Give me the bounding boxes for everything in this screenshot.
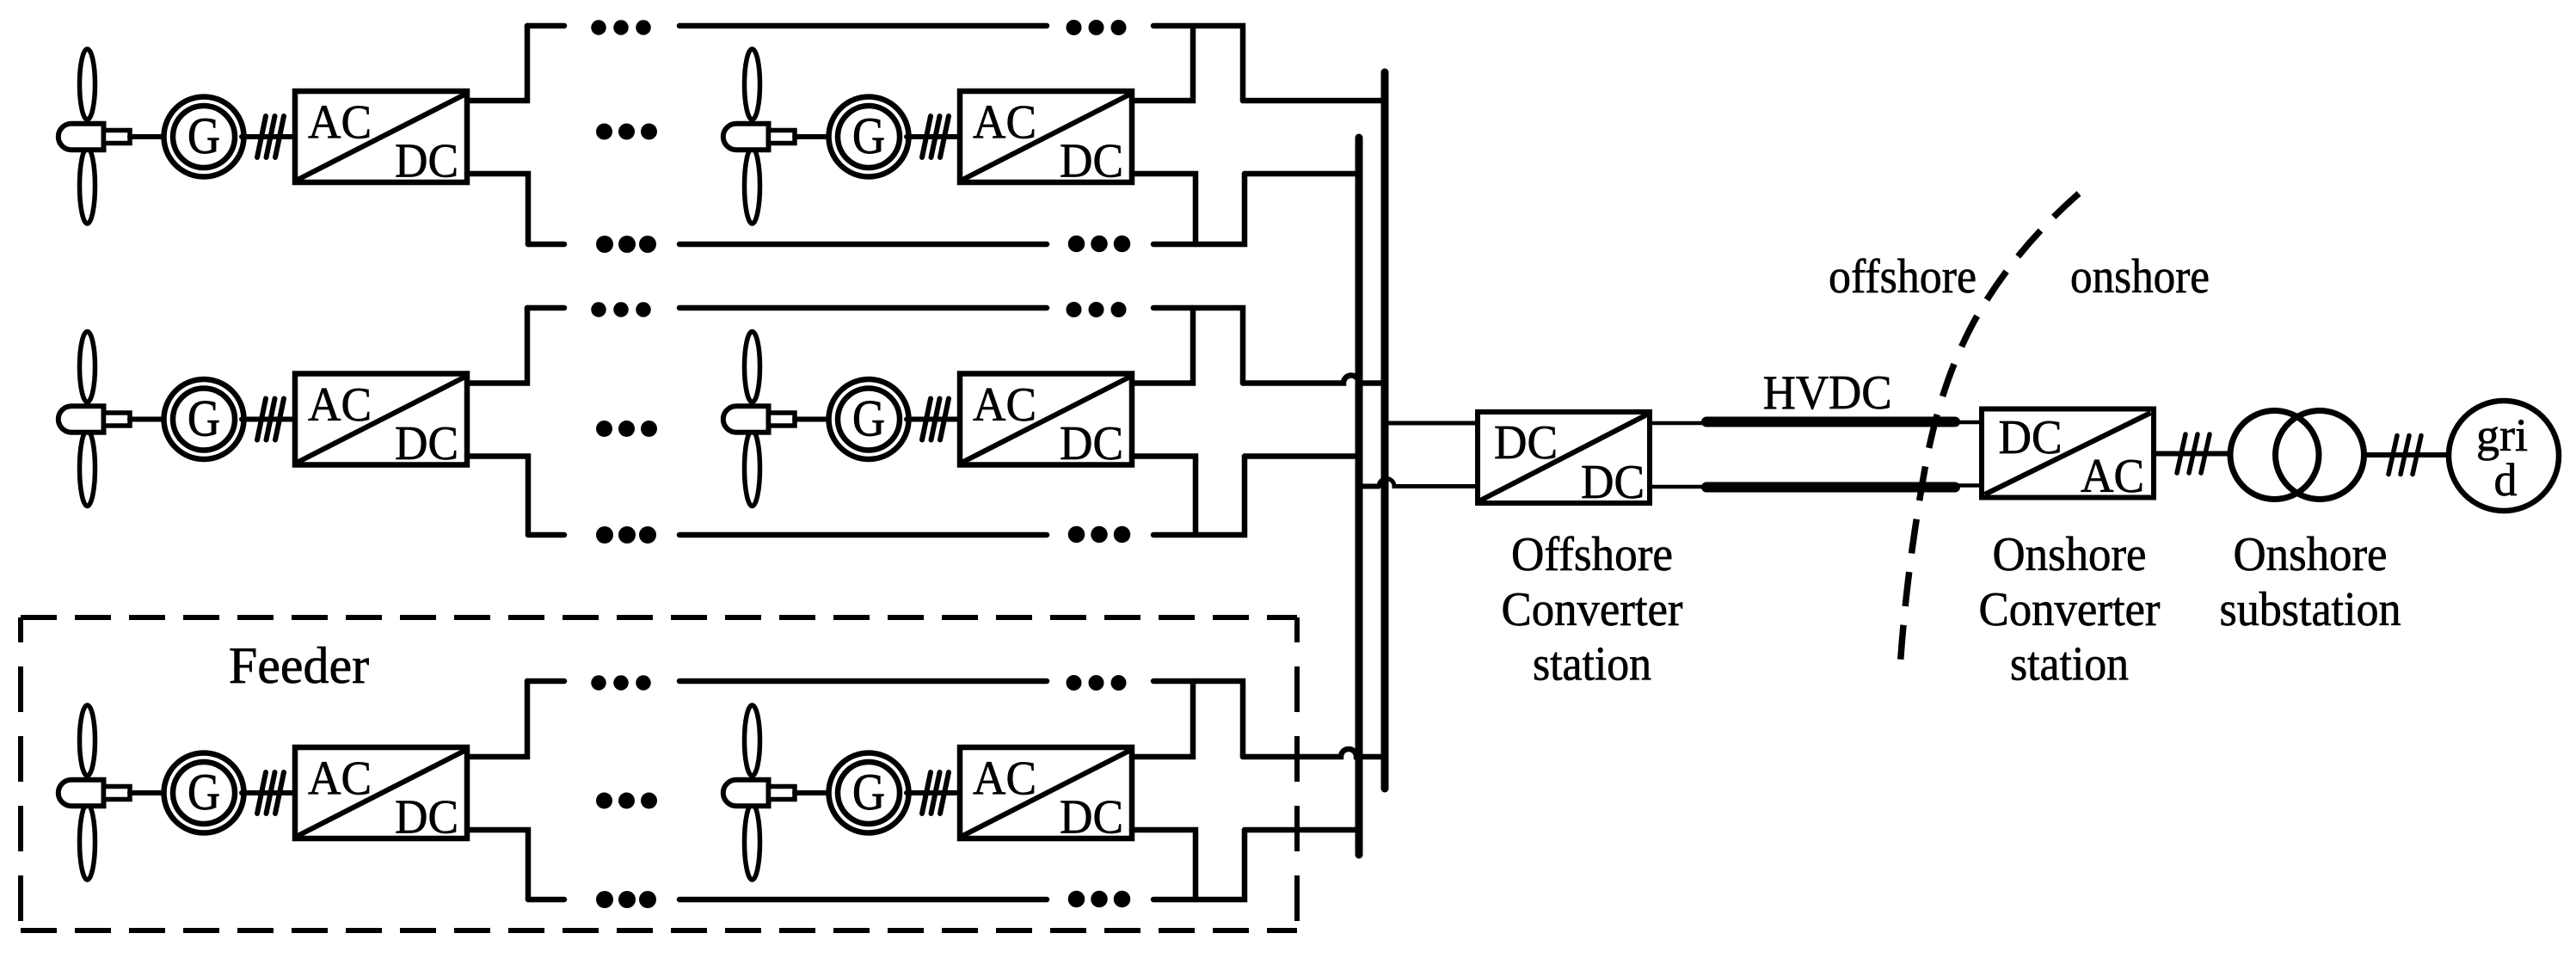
svg-text:DC: DC <box>1581 456 1645 509</box>
svg-text:d: d <box>2494 454 2518 506</box>
svg-text:Converter: Converter <box>1502 583 1683 636</box>
svg-text:station: station <box>1533 638 1651 691</box>
svg-text:DC: DC <box>1494 416 1558 470</box>
svg-text:Offshore: Offshore <box>1511 528 1673 581</box>
svg-text:offshore: offshore <box>1829 250 1977 304</box>
svg-text:station: station <box>2010 638 2129 691</box>
svg-text:Feeder: Feeder <box>229 637 369 694</box>
svg-text:AC: AC <box>2081 450 2144 503</box>
svg-text:substation: substation <box>2220 583 2401 636</box>
svg-text:Converter: Converter <box>1979 583 2161 636</box>
svg-text:Onshore: Onshore <box>2234 528 2388 581</box>
svg-text:onshore: onshore <box>2070 250 2210 304</box>
svg-text:gri: gri <box>2476 409 2528 461</box>
svg-text:DC: DC <box>1999 411 2063 464</box>
svg-text:Onshore: Onshore <box>1993 528 2147 581</box>
svg-text:HVDC: HVDC <box>1763 366 1892 420</box>
